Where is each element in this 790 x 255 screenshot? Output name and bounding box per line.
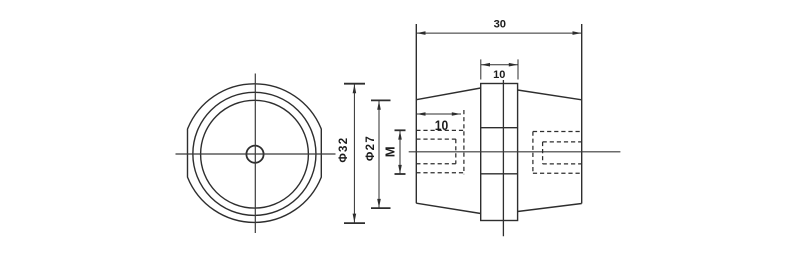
front view middle circle xyxy=(193,92,316,215)
dimension 10 (thread depth) xyxy=(416,113,461,115)
front view outer profile with wrench flats xyxy=(188,84,322,223)
collar lower hole line xyxy=(481,173,518,175)
bottom-right cone edge xyxy=(518,204,582,212)
left hole depth vertical xyxy=(463,110,465,174)
top-left cone edge xyxy=(416,88,480,100)
svg-text:Φ27: Φ27 xyxy=(365,135,377,161)
left hole minor top xyxy=(416,138,456,140)
left hole minor end vertical xyxy=(455,139,457,164)
left hole major bottom xyxy=(416,172,464,174)
front view vertical centerline xyxy=(254,74,256,234)
svg-text:30: 30 xyxy=(494,19,506,31)
front view thread hole circle xyxy=(246,146,263,163)
side view horizontal centerline xyxy=(409,151,621,153)
top-right cone edge xyxy=(518,90,582,100)
right hole depth vertical xyxy=(532,132,534,174)
side view left face + 30-dim extension xyxy=(415,24,417,203)
right hole major bottom xyxy=(533,172,582,174)
svg-text:Φ32: Φ32 xyxy=(338,137,350,163)
right hole minor top xyxy=(543,141,582,143)
dimension Φ27 xyxy=(371,100,391,208)
dimension 30 (overall width) xyxy=(416,32,581,34)
side view body xyxy=(416,24,581,221)
hidden thread hole left (dashed) xyxy=(416,110,581,174)
front view horizontal centerline xyxy=(176,153,336,155)
svg-text:M: M xyxy=(382,146,397,157)
dimension 10 (collar width) xyxy=(481,59,518,79)
dimension Φ32 xyxy=(344,84,365,223)
bottom-left cone edge xyxy=(416,203,480,213)
collar rectangle xyxy=(481,84,518,221)
front view inner circle Φ27 xyxy=(201,100,309,208)
collar upper hole line xyxy=(481,127,518,129)
left hole minor bottom xyxy=(416,163,456,165)
svg-text:10: 10 xyxy=(493,69,505,81)
side view axis vertical line xyxy=(502,80,504,236)
side view right face + 30-dim extension xyxy=(581,24,583,204)
left hole major top xyxy=(416,129,464,131)
dimension M (thread) xyxy=(395,130,406,174)
right hole major top xyxy=(533,131,582,133)
right hole minor end vertical xyxy=(542,142,544,164)
svg-text:10: 10 xyxy=(435,117,449,133)
right hole minor bottom xyxy=(543,163,582,165)
